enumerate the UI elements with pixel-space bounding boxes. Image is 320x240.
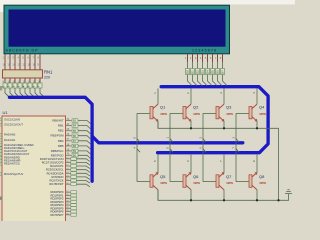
transistor Q3 bbox=[203, 88, 233, 128]
svg-text:Q4: Q4 bbox=[259, 105, 265, 110]
U1 left pin RA2/AN2/VREF-/CVREF bbox=[0, 144, 2, 146]
display screen bbox=[9, 10, 226, 47]
display DS1 7SEG-MPX8 body bbox=[4, 5, 230, 54]
svg-text:RB6/PGC: RB6/PGC bbox=[51, 149, 64, 153]
wire RN1 pin 3 to bus bbox=[15, 88, 19, 97]
svg-text:RD7/PSP7: RD7/PSP7 bbox=[51, 213, 65, 217]
RN1 bottom pin 4 bbox=[19, 78, 21, 84]
display segment pin wire 4 bbox=[19, 54, 21, 70]
svg-text:D5: D5 bbox=[211, 70, 215, 74]
U1 left pin RA0/AN0 bbox=[0, 134, 2, 136]
net label digit 5 bbox=[206, 69, 210, 75]
RN1 bottom pin 2 bbox=[9, 78, 11, 84]
wire base column 4 (bus A tap to Q4/Q8 bases) bbox=[235, 113, 237, 181]
svg-text:NPN: NPN bbox=[227, 181, 233, 185]
svg-text:RN1: RN1 bbox=[44, 69, 53, 74]
display digit pin wire 2 bbox=[192, 54, 194, 62]
transistor Q7 bbox=[203, 155, 233, 201]
svg-text:D1: D1 bbox=[191, 70, 195, 74]
display digit pin wire 4 bbox=[202, 54, 204, 62]
svg-text:D7: D7 bbox=[221, 70, 225, 74]
U1 left pin MCLR/Vpp/THV bbox=[0, 173, 2, 175]
U1 left pin RE2/AN7/CS bbox=[0, 163, 2, 165]
svg-text:D2: D2 bbox=[196, 70, 200, 74]
transistor Q1 bbox=[137, 88, 167, 128]
svg-text:Q6: Q6 bbox=[193, 174, 199, 179]
svg-text:Q7: Q7 bbox=[226, 174, 232, 179]
svg-text:RE2/AN7/CS: RE2/AN7/CS bbox=[4, 162, 20, 166]
display digit pin wire 6 bbox=[212, 54, 214, 62]
svg-text:RC5/SDO: RC5/SDO bbox=[52, 175, 64, 179]
svg-text:RA0/AN0: RA0/AN0 bbox=[4, 133, 16, 137]
svg-text:D6: D6 bbox=[216, 70, 220, 74]
svg-text:U1: U1 bbox=[3, 110, 9, 115]
RN1 bottom pin 7 bbox=[34, 78, 36, 84]
resistor network RN1 body bbox=[3, 70, 43, 78]
wire base column 1 (bus A tap to Q1/Q5 bases) bbox=[136, 113, 138, 181]
display segment pin wire 8 bbox=[39, 54, 41, 70]
svg-text:12345678: 12345678 bbox=[192, 49, 216, 53]
svg-text:RA1/AN1: RA1/AN1 bbox=[4, 138, 16, 142]
svg-text:220: 220 bbox=[44, 75, 50, 79]
svg-text:RB1: RB1 bbox=[58, 124, 64, 128]
svg-text:NPN: NPN bbox=[161, 112, 167, 116]
svg-text:RC0/T1OSO/T1CKI: RC0/T1OSO/T1CKI bbox=[40, 157, 64, 161]
svg-text:NPN: NPN bbox=[227, 112, 233, 116]
svg-text:RB2: RB2 bbox=[58, 129, 64, 133]
svg-text:RB4: RB4 bbox=[58, 139, 64, 143]
wire emitter rail bottom row + ground run bbox=[158, 190, 289, 200]
transistor Q4 bbox=[236, 88, 266, 128]
microcontroller U1 body bbox=[2, 116, 66, 223]
svg-text:RB7/PGD: RB7/PGD bbox=[51, 153, 64, 157]
svg-text:Q3: Q3 bbox=[226, 105, 232, 110]
svg-text:NPN: NPN bbox=[194, 181, 200, 185]
U1 left pin RE1/AN6/WR bbox=[0, 160, 2, 162]
net label digit 6 bbox=[211, 69, 215, 75]
svg-text:RC2/CCP1: RC2/CCP1 bbox=[50, 164, 64, 168]
svg-text:NPN: NPN bbox=[260, 181, 266, 185]
bus from RN1 to U1 port B (horizontal + left vertical) bbox=[9, 97, 92, 181]
transistor Q2 bbox=[170, 88, 200, 128]
display segment pin wire 6 bbox=[29, 54, 31, 70]
display digit pin wire 7 bbox=[217, 54, 219, 62]
svg-text:RB5: RB5 bbox=[58, 144, 64, 148]
net label fragment at left edge bbox=[0, 86, 2, 90]
RN1 bottom pin 5 bbox=[24, 78, 26, 84]
svg-text:NPN: NPN bbox=[260, 112, 266, 116]
display segment pin wire 3 bbox=[14, 54, 16, 70]
wire RN1 pin 6 to bus bbox=[30, 88, 34, 97]
RN1 bottom pin 8 bbox=[39, 78, 41, 84]
U1 left pin OSC2/CLKOUT bbox=[0, 124, 2, 126]
U1 left pin RA5/AN4/SS/C2OUT bbox=[0, 153, 2, 155]
U1 left pin RA4/T0CKI/C1OUT bbox=[0, 150, 2, 152]
svg-text:RC3/SCK/SCL: RC3/SCK/SCL bbox=[46, 168, 64, 172]
wire emitter rail top row bbox=[158, 121, 279, 200]
display segment pin wire 1 bbox=[4, 54, 6, 70]
svg-text:Q5: Q5 bbox=[160, 174, 166, 179]
svg-text:D3: D3 bbox=[201, 70, 205, 74]
wire base column 3 (bus A tap to Q3/Q7 bases) bbox=[202, 113, 204, 181]
svg-text:D4: D4 bbox=[206, 70, 210, 74]
svg-text:ABCDEFG DP: ABCDEFG DP bbox=[6, 49, 39, 53]
wire RN1 pin 7 to bus bbox=[35, 88, 39, 97]
display segment pin wire 7 bbox=[34, 54, 36, 70]
RN1 bottom pin 1 bbox=[4, 78, 6, 84]
wire base column 2 (bus A tap to Q2/Q6 bases) bbox=[169, 113, 171, 181]
svg-text:RB0/INT: RB0/INT bbox=[52, 119, 63, 123]
svg-text:Q8: Q8 bbox=[259, 174, 265, 179]
wire RN1 pin 5 to bus bbox=[25, 88, 29, 97]
net label digit 7 bbox=[216, 69, 220, 75]
svg-text:OSC1/CLKIN: OSC1/CLKIN bbox=[4, 118, 20, 122]
display segment pin wire 5 bbox=[24, 54, 26, 70]
svg-text:OSC2/CLKOUT: OSC2/CLKOUT bbox=[4, 123, 23, 127]
net label digit 3 bbox=[196, 69, 200, 75]
ground symbol bbox=[285, 190, 292, 194]
svg-text:D0: D0 bbox=[186, 70, 190, 74]
U1 left pin RA1/AN1 bbox=[0, 139, 2, 141]
transistor Q6 bbox=[170, 155, 200, 201]
svg-text:MCLR/Vpp/THV: MCLR/Vpp/THV bbox=[4, 172, 23, 176]
U1 left pin RE0/AN5/RD bbox=[0, 157, 2, 159]
label fragment bottom left bbox=[0, 197, 3, 200]
net label digit 1 bbox=[186, 69, 190, 75]
U1 left pin RA3/AN3/VREF+ bbox=[0, 147, 2, 149]
net label digit 4 bbox=[201, 69, 205, 75]
transistor Q5 bbox=[137, 155, 167, 201]
transistor Q8 bbox=[236, 155, 266, 201]
svg-text:Q2: Q2 bbox=[193, 105, 199, 110]
svg-text:RA5/AN4/SS/C2OUT: RA5/AN4/SS/C2OUT bbox=[4, 152, 30, 156]
svg-text:Q1: Q1 bbox=[160, 105, 166, 110]
display digit pin wire 3 bbox=[197, 54, 199, 62]
junction dots bottom rail bbox=[190, 199, 192, 201]
svg-text:RC6/TX/CK: RC6/TX/CK bbox=[49, 179, 63, 183]
net label digit 2 bbox=[191, 69, 195, 75]
display segment pin wire 2 bbox=[9, 54, 11, 70]
RN1 bottom pin 6 bbox=[29, 78, 31, 84]
display digit pin wire 5 bbox=[207, 54, 209, 62]
svg-text:RC7/RX/DT: RC7/RX/DT bbox=[49, 182, 64, 186]
junction dots top rail bbox=[190, 127, 192, 129]
svg-text:NPN: NPN bbox=[161, 181, 167, 185]
svg-text:RC4/SDI/SDA: RC4/SDI/SDA bbox=[47, 171, 64, 175]
svg-text:RB3/PGM: RB3/PGM bbox=[50, 134, 64, 138]
wire RN1 pin 1 to bus bbox=[5, 88, 9, 97]
wire RN1 pin 4 to bus bbox=[20, 88, 24, 97]
U1 left pin OSC1/CLKIN bbox=[0, 119, 2, 121]
bus A (base drive bus, middle upper) bbox=[92, 136, 243, 143]
RN1 bottom pin 3 bbox=[14, 78, 16, 84]
wire RN1 pin 2 to bus bbox=[10, 88, 14, 97]
wire RN1 pin 8 to bus bbox=[40, 88, 44, 97]
svg-text:RC1/T1OSI/CCP2: RC1/T1OSI/CCP2 bbox=[42, 160, 64, 164]
net label digit 8 bbox=[221, 69, 225, 75]
svg-text:NPN: NPN bbox=[194, 112, 200, 116]
display digit pin wire 1 bbox=[187, 54, 189, 62]
bus B (digit bus: top run, right vertical, lower middle run) bbox=[158, 87, 269, 153]
display digit pin wire 8 bbox=[222, 54, 224, 62]
